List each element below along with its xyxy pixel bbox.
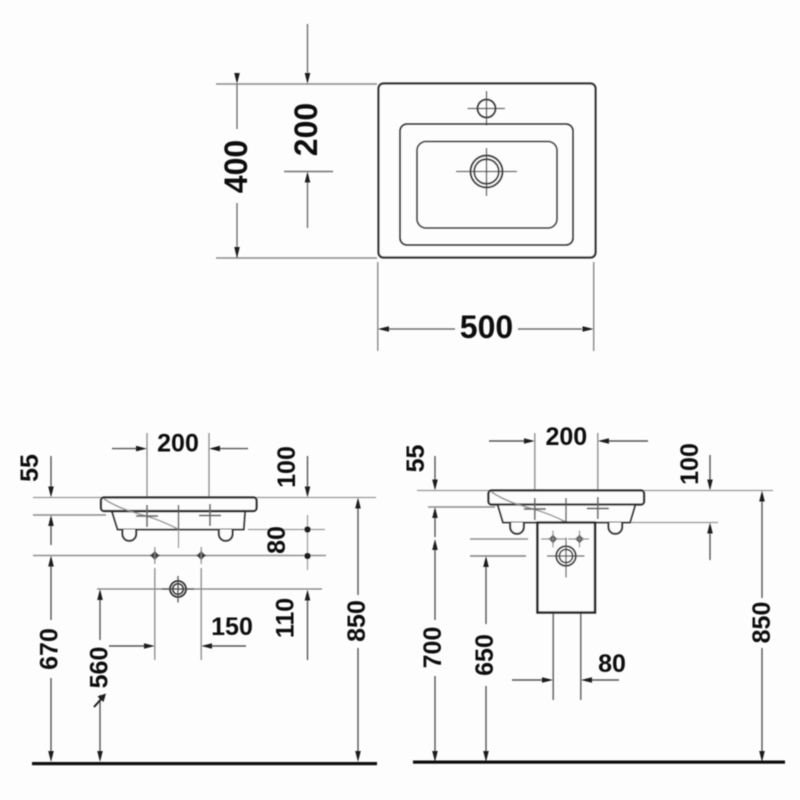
svg-text:200: 200 bbox=[288, 103, 324, 156]
svg-text:670: 670 bbox=[36, 628, 64, 670]
svg-text:100: 100 bbox=[676, 443, 704, 485]
svg-text:200: 200 bbox=[157, 430, 199, 458]
svg-text:500: 500 bbox=[460, 309, 513, 345]
svg-text:110: 110 bbox=[272, 598, 300, 638]
svg-text:100: 100 bbox=[273, 446, 301, 488]
svg-text:200: 200 bbox=[545, 423, 587, 451]
svg-text:150: 150 bbox=[211, 613, 253, 641]
svg-text:80: 80 bbox=[598, 650, 626, 678]
svg-text:700: 700 bbox=[419, 627, 447, 669]
svg-text:850: 850 bbox=[748, 602, 776, 644]
svg-text:400: 400 bbox=[218, 140, 254, 193]
svg-text:80: 80 bbox=[263, 526, 291, 554]
svg-text:55: 55 bbox=[402, 445, 430, 473]
svg-text:850: 850 bbox=[343, 600, 371, 642]
svg-text:55: 55 bbox=[16, 454, 44, 482]
svg-text:650: 650 bbox=[471, 634, 499, 676]
svg-text:560: 560 bbox=[86, 647, 114, 689]
